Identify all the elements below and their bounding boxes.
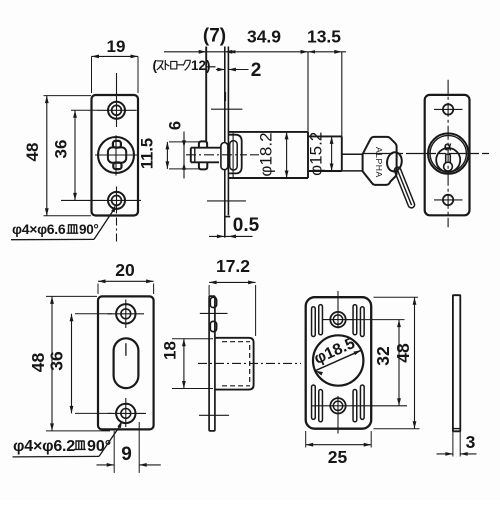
- case side outline: [215, 338, 254, 390]
- dim 25 label: [328, 447, 348, 467]
- svg-text:19: 19: [107, 37, 126, 56]
- dim 17.2 lines: [209, 281, 256, 337]
- key neck: [342, 154, 363, 171]
- dim 19 label: [107, 37, 126, 56]
- dim 48 lines: [44, 96, 92, 216]
- dim 13.5 label: [307, 27, 341, 47]
- key ring hole: [386, 151, 403, 172]
- dim 17.2 label: [216, 256, 250, 276]
- note phi4 x phi6.2 countersink 90: [13, 438, 111, 455]
- strike screw top centerlines: [108, 300, 145, 329]
- case bottom edge: [229, 177, 308, 179]
- dim 48 strike lines: [46, 296, 110, 431]
- note stroke 12 (katakana): [153, 58, 211, 73]
- svg-text:25: 25: [328, 447, 348, 467]
- screw hole top centerlines: [98, 73, 137, 127]
- overall dim line 7 / 34.9 / 13.5: [164, 50, 346, 54]
- dim phi15.2 line: [330, 136, 334, 171]
- svg-text:90°: 90°: [79, 222, 99, 237]
- bolt guide capsule in faceplate: [221, 143, 228, 170]
- svg-text:90°: 90°: [87, 438, 111, 455]
- cylinder escutcheon plate: [425, 95, 470, 215]
- screw hole bottom centerlines: [61, 187, 141, 214]
- tick upper: [211, 108, 242, 110]
- dim 18 lines: [172, 339, 213, 389]
- dim 2 label: [251, 60, 262, 81]
- dim phi18.2 line: [285, 132, 289, 178]
- strip tick lower: [199, 414, 229, 416]
- case centerline: [198, 362, 301, 364]
- bolt hub inner capsule: [230, 141, 238, 170]
- dim 34.9 label: [247, 27, 281, 47]
- faceplate side strip: [209, 296, 215, 431]
- dim 48 escutcheon label: [393, 343, 413, 363]
- dim 18 label: [161, 341, 180, 360]
- screw hole bottom: [108, 192, 125, 209]
- screw hole top: [108, 102, 125, 119]
- bolt top flange ear: [199, 141, 207, 147]
- key bow outline: [363, 137, 397, 185]
- dim 3 label: [466, 432, 476, 452]
- dim 48 strike label: [28, 353, 48, 373]
- strike plate: [98, 296, 154, 429]
- dim phi18.2 label: [257, 132, 276, 176]
- faceplate top edge: [206, 66, 215, 68]
- bolt bottom flange ear: [199, 162, 207, 169]
- svg-text:48: 48: [393, 343, 413, 363]
- faceplate back edge: [224, 47, 226, 238]
- svg-text:48: 48: [23, 143, 42, 162]
- dim 6 label: [167, 121, 185, 130]
- cylinder plate screw bottom: [434, 195, 463, 205]
- svg-text:φ18.2: φ18.2: [257, 132, 276, 176]
- dim 36 lines: [71, 110, 98, 200]
- note phi4 x phi6.6 countersink 90: [12, 221, 99, 237]
- dim 11.5 lines: [166, 142, 200, 169]
- cylinder rose rings: [428, 133, 468, 173]
- latch front plate (front view): [92, 95, 139, 216]
- dim 25 lines: [306, 431, 372, 448]
- dim 9 lines: [97, 422, 161, 473]
- bolt bar: [191, 148, 221, 163]
- svg-text:2: 2: [251, 60, 262, 81]
- side strip end tick: [453, 428, 460, 430]
- cylinder housing end: [341, 52, 343, 171]
- dim (7) label: [203, 26, 226, 47]
- dim phi15.2 label: [307, 132, 326, 176]
- dim 0.5 arrows: [209, 235, 253, 239]
- tick lower: [207, 200, 246, 202]
- strike screw bottom: [116, 404, 135, 423]
- strip top tab: [210, 297, 216, 307]
- svg-text:18: 18: [161, 341, 180, 360]
- svg-text:36: 36: [52, 140, 71, 159]
- note leader line 2: [13, 421, 123, 457]
- escutcheon side strip: [453, 295, 460, 431]
- spindle barrel: [108, 141, 126, 169]
- cylinder horizontal centerline: [363, 153, 491, 155]
- svg-text:ALPHA: ALPHA: [374, 147, 384, 178]
- grip slots top: [312, 305, 365, 337]
- svg-text:3: 3: [466, 432, 476, 452]
- dim 11.5 label: [139, 138, 157, 169]
- bolt hub housing: [228, 135, 241, 174]
- dim 48 label: [23, 143, 42, 162]
- cylinder plug: [436, 148, 460, 172]
- strip second tab: [210, 321, 216, 331]
- svg-text:20: 20: [115, 260, 135, 280]
- dim 9 label: [121, 444, 132, 465]
- slot mark: [224, 92, 226, 101]
- grip slots bottom: [312, 385, 365, 422]
- svg-text:11.5: 11.5: [139, 138, 157, 169]
- case top edge: [228, 131, 308, 133]
- cylinder housing top/bottom: [308, 136, 342, 171]
- dim 48 escutcheon lines: [374, 297, 420, 429]
- escutcheon screw bottom: [330, 398, 345, 413]
- strip tick upper: [200, 312, 228, 314]
- case hidden lines: [222, 342, 250, 386]
- svg-text:α: α: [444, 140, 452, 154]
- bolt slot oval: [114, 338, 139, 388]
- case back edge: [307, 52, 309, 178]
- bolt axis centerline: [186, 154, 259, 156]
- svg-text:(: (: [153, 58, 158, 73]
- key brand text ALPHA: [374, 147, 384, 178]
- dia phi18.5 arrow: [315, 350, 361, 375]
- dim 32 lines: [346, 320, 405, 406]
- escutcheon screw top centerlines: [323, 291, 354, 328]
- svg-text:φ15.2: φ15.2: [307, 132, 326, 176]
- spindle hub circle: [98, 137, 134, 173]
- svg-text:48: 48: [28, 353, 48, 373]
- strike screw bottom centerlines: [108, 398, 147, 427]
- svg-text:φ4×φ6.6: φ4×φ6.6: [12, 221, 66, 237]
- escutcheon screw top: [330, 312, 345, 327]
- alpha mark: [444, 140, 452, 154]
- svg-text:φ4×φ6.2: φ4×φ6.2: [13, 438, 75, 455]
- cylinder hole circle: [313, 335, 363, 385]
- key ring tail: [393, 166, 415, 209]
- dim 20 label: [115, 260, 135, 280]
- dim 0.5 label: [233, 215, 260, 236]
- svg-text:12): 12): [191, 58, 211, 73]
- strike screw top: [116, 304, 135, 323]
- svg-text:9: 9: [121, 444, 132, 465]
- hub centerlines: [95, 135, 138, 175]
- cylinder plate screw top: [434, 104, 463, 114]
- escutcheon plate: [306, 297, 372, 429]
- svg-text:0.5: 0.5: [233, 215, 260, 236]
- note leader line 1: [11, 205, 116, 240]
- bolt hub centerline: [232, 133, 234, 177]
- svg-text:6: 6: [167, 121, 185, 130]
- dim 6 lines: [182, 132, 186, 179]
- dim 20 lines: [98, 279, 154, 294]
- cylinder vertical centerline: [447, 80, 449, 228]
- keyway: [444, 154, 453, 171]
- svg-text:17.2: 17.2: [216, 256, 250, 276]
- centerline below plate: [116, 218, 118, 244]
- svg-text:φ18.5: φ18.5: [312, 335, 358, 368]
- svg-text:34.9: 34.9: [247, 27, 281, 47]
- dim 36 strike lines: [70, 314, 112, 414]
- faceplate front edge: [205, 47, 207, 142]
- case front line with foot: [224, 47, 230, 217]
- dim 36 strike label: [47, 351, 67, 371]
- dim 2 arrows: [216, 68, 249, 72]
- dim 19 lines: [92, 55, 139, 94]
- svg-text:36: 36: [47, 351, 67, 371]
- svg-text:13.5: 13.5: [307, 27, 341, 47]
- dim 36 label: [52, 140, 71, 159]
- svg-text:32: 32: [373, 346, 393, 366]
- dim phi18.5 label: [312, 335, 358, 368]
- escutcheon screw bottom centerlines: [311, 396, 407, 434]
- dim 3 lines: [437, 430, 477, 456]
- oval mark: [125, 343, 127, 356]
- dim 32 label: [373, 346, 393, 366]
- svg-text:(7): (7): [203, 26, 226, 47]
